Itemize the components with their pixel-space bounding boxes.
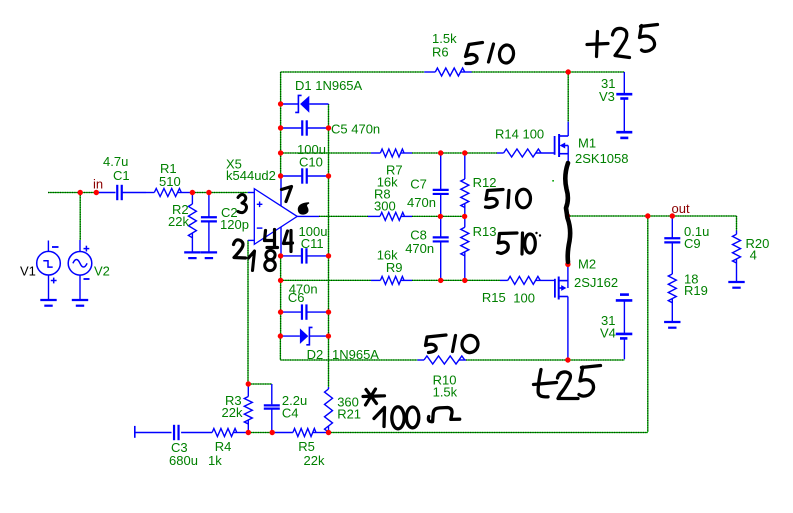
stray mark (552, 180, 554, 182)
voltage source V2 (68, 240, 110, 300)
pin 7 stub (280, 176, 282, 206)
wire M1 gate row (281, 152, 497, 154)
handwritten pin number 4a (265, 230, 278, 248)
handwritten note 510 (R10) (426, 334, 480, 353)
resistor R19 (668, 271, 708, 322)
handwritten output link wire (565, 163, 570, 262)
resistor R20 (733, 231, 770, 283)
svg-text:R5: R5 (298, 439, 315, 454)
junction (462, 278, 467, 283)
junction (278, 333, 283, 338)
junction (190, 190, 195, 195)
wire V- supply column (280, 256, 282, 336)
diode D1 1N965A (281, 78, 363, 113)
svg-text:C5 470n: C5 470n (331, 122, 380, 137)
svg-text:M2: M2 (578, 257, 596, 272)
svg-text:22k: 22k (304, 453, 325, 468)
junction (78, 190, 83, 195)
resistor R2 (168, 193, 196, 253)
ground (40, 300, 56, 306)
junction (278, 150, 283, 155)
junction (278, 173, 283, 178)
svg-text:R6: R6 (432, 44, 449, 59)
transistor M1 2SK1058 (555, 122, 629, 166)
junction (326, 430, 331, 435)
capacitor C8 (405, 216, 449, 280)
wire M2 gate row (281, 279, 500, 281)
svg-text:22k: 22k (222, 405, 243, 420)
junction (326, 253, 331, 258)
junction (278, 101, 283, 106)
capacitor C6 (281, 281, 329, 319)
resistor R10 (417, 356, 466, 399)
svg-text:V4: V4 (600, 326, 616, 341)
svg-text:2SK1058: 2SK1058 (575, 151, 629, 166)
svg-text:out: out (672, 201, 690, 216)
svg-text:470n: 470n (405, 241, 434, 256)
svg-text:1.5k: 1.5k (433, 384, 458, 399)
svg-text:D1 1N965A: D1 1N965A (295, 78, 363, 93)
capacitor C9 (664, 216, 709, 274)
svg-text:300: 300 (374, 198, 396, 213)
junction (326, 333, 331, 338)
wire bottom RC node (248, 432, 272, 434)
pin 4 stub (280, 227, 282, 256)
handwritten asterisk (363, 389, 385, 405)
wire inverting feedback column (247, 240, 249, 384)
handwritten note 510 (R13) (498, 232, 542, 254)
wire +V top rail (281, 71, 625, 73)
svg-text:C1: C1 (113, 168, 130, 183)
svg-text:R13: R13 (473, 224, 497, 239)
svg-text:R15: R15 (482, 290, 506, 305)
junction (462, 150, 467, 155)
capacitor C1 (97, 154, 146, 200)
handwritten pin number 4b (284, 231, 293, 252)
resistor R9 (371, 248, 412, 285)
wire bootstrap mid column (328, 104, 330, 387)
svg-text:1k: 1k (208, 453, 222, 468)
capacitor C3 (135, 425, 212, 468)
svg-text:510: 510 (159, 174, 181, 189)
svg-text:4: 4 (750, 248, 757, 263)
svg-text:C6: C6 (288, 290, 305, 305)
svg-text:C9: C9 (684, 236, 701, 251)
ground (664, 322, 680, 328)
junction (94, 190, 99, 195)
capacitor C7 (407, 153, 449, 216)
wire bottom feedback run (329, 432, 648, 434)
svg-text:2SJ162: 2SJ162 (574, 275, 618, 290)
junction (438, 214, 443, 219)
svg-text:R12: R12 (473, 175, 497, 190)
junction (278, 253, 283, 258)
resistor R5 (272, 429, 328, 469)
svg-text:D2: D2 (307, 347, 324, 362)
junction (565, 357, 570, 362)
wire op-amp output row (319, 215, 465, 217)
ground (201, 252, 217, 258)
handwritten note +25 (top) (587, 25, 658, 58)
junction (566, 69, 571, 74)
junction (326, 309, 331, 314)
wire V+ supply column (280, 72, 282, 176)
wire M1 drain branch (567, 72, 569, 122)
wire input to op-amp (192, 192, 247, 194)
handwritten note 510 (R6) (466, 43, 515, 64)
junction (270, 430, 275, 435)
junction (246, 430, 251, 435)
junction (278, 309, 283, 314)
svg-text:M1: M1 (578, 136, 596, 151)
junction (326, 125, 331, 130)
resistor R3 (222, 384, 253, 433)
battery V4 (600, 295, 632, 360)
ground (72, 300, 88, 306)
svg-text:680u: 680u (169, 453, 198, 468)
capacitor C2 (201, 193, 249, 253)
wire output feedback column (647, 216, 649, 432)
junction (206, 190, 211, 195)
capacitor C5 (281, 120, 381, 136)
svg-text:C4: C4 (282, 406, 299, 421)
junction (326, 173, 331, 178)
svg-text:C11: C11 (301, 236, 324, 251)
resistor R15 (482, 276, 555, 305)
svg-text:C10: C10 (299, 154, 323, 169)
resistor R1 (146, 161, 192, 197)
junction (565, 262, 570, 267)
resistor R14 (495, 127, 555, 157)
capacitor C4 (264, 384, 307, 433)
svg-text:in: in (93, 177, 103, 192)
svg-text:V1: V1 (20, 264, 36, 279)
svg-text:120p: 120p (220, 217, 249, 232)
junction (278, 278, 283, 283)
capacitor C10 (281, 142, 329, 184)
junction (462, 214, 467, 219)
svg-text:R14 100: R14 100 (495, 127, 544, 142)
svg-text:R21: R21 (337, 407, 361, 422)
svg-text:R19: R19 (684, 283, 708, 298)
resistor R4 (208, 429, 248, 469)
op-amp output stub (297, 215, 319, 217)
svg-text:V2: V2 (94, 264, 110, 279)
resistor R12 (461, 153, 497, 216)
junction (438, 278, 443, 283)
capacitor C11 (281, 224, 329, 264)
junction (246, 381, 251, 386)
svg-text:k544ud2: k544ud2 (226, 168, 276, 183)
handwritten pin number 6 (299, 203, 309, 214)
resistor R6 (424, 31, 471, 76)
handwritten pin number 2 (234, 240, 246, 258)
wire R3-C4 node link (248, 383, 271, 385)
junction (670, 213, 675, 218)
diode D2 1N965A (280, 327, 379, 362)
handwritten note 100 ohm (374, 407, 460, 429)
wire R20 branch (736, 216, 738, 231)
svg-text:1N965A: 1N965A (332, 347, 379, 362)
svg-text:4.7u: 4.7u (103, 154, 128, 169)
ground (184, 252, 200, 258)
junction (438, 150, 443, 155)
resistor R8 (368, 187, 412, 221)
battery V3 (599, 72, 632, 138)
wire input line (48, 192, 97, 194)
svg-text:22k: 22k (168, 214, 189, 229)
handwritten note +25 (bottom) (534, 366, 601, 399)
junction (645, 213, 650, 218)
svg-text:R4: R4 (215, 439, 232, 454)
voltage source V1 (20, 241, 60, 300)
resistor R13 (461, 216, 497, 280)
svg-text:470n: 470n (407, 195, 436, 210)
svg-text:R9: R9 (386, 260, 403, 275)
op-amp X5 k544ud2 (226, 156, 297, 244)
transistor M2 2SJ162 (555, 257, 618, 360)
handwritten pin number 1 (249, 251, 255, 271)
handwritten pin number 8 (265, 250, 276, 270)
junction (278, 125, 283, 130)
svg-text:C7: C7 (410, 176, 427, 191)
handwritten pin number 3 (238, 195, 247, 213)
handwritten note 510 (R12) (486, 189, 531, 208)
handwritten pin number 7 (282, 187, 292, 202)
svg-text:100: 100 (513, 291, 535, 306)
wire output node row (568, 215, 737, 217)
wire -V rail (280, 336, 624, 360)
resistor R21 (325, 387, 362, 433)
wire V2 branch (79, 193, 81, 241)
junction (565, 213, 570, 218)
svg-text:V3: V3 (599, 89, 615, 104)
resistor R7 (371, 149, 412, 190)
ground (728, 282, 744, 288)
